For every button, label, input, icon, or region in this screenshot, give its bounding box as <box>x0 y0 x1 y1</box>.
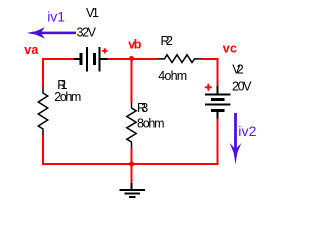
svg-text:v: v <box>223 42 230 56</box>
svg-text:2ohm: 2ohm <box>54 90 81 104</box>
svg-text:R3: R3 <box>137 101 148 115</box>
svg-text:v: v <box>24 43 31 57</box>
svg-text:a: a <box>31 43 39 57</box>
svg-text:V1: V1 <box>86 6 99 20</box>
svg-text:32V: 32V <box>77 25 97 39</box>
svg-text:iv2: iv2 <box>238 123 256 139</box>
svg-text:c: c <box>230 42 237 56</box>
svg-text:20V: 20V <box>232 79 252 93</box>
svg-text:8ohm: 8ohm <box>137 117 165 131</box>
svg-text:4ohm: 4ohm <box>158 69 187 83</box>
svg-text:b: b <box>134 38 142 52</box>
svg-text:V2: V2 <box>232 63 244 77</box>
svg-text:iv1: iv1 <box>47 9 65 25</box>
svg-text:R2: R2 <box>161 34 173 48</box>
